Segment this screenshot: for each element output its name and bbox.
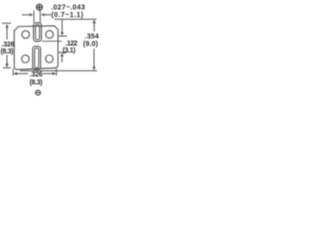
dim .354: bottom extension line: [20, 70, 97, 72]
polarity mark minus (bottom): [36, 90, 41, 95]
polarity mark plus (top): [37, 4, 43, 10]
bottom dim .326: right extension line: [55, 69, 57, 76]
upper terminal slot outer: [34, 23, 42, 42]
bottom dim .326: left arrow: [13, 72, 28, 75]
svg-text:(0.7~1.1): (0.7~1.1): [51, 12, 83, 19]
svg-text:(8.3): (8.3): [1, 48, 14, 55]
extension line from upper slot bottom: [42, 40, 62, 42]
bottom dim .326: right arrow: [43, 72, 56, 75]
mounting dimple bottom-left: [22, 55, 30, 63]
bottom dim .326: left extension line: [12, 69, 14, 76]
mounting dimple top-left: [22, 31, 30, 39]
lead width dim: right arrow: [41, 13, 51, 16]
lead width dim: left extension line: [33, 11, 35, 23]
dim .354: vertical line top with up arrow: [93, 19, 96, 31]
left dim .326: up arrow: [5, 24, 8, 40]
dim .122: down arrow from leader: [61, 19, 64, 36]
svg-text:.122: .122: [66, 40, 78, 47]
upper terminal lead inner: [35, 25, 39, 40]
dim .354: vertical line bottom with down arrow: [92, 49, 95, 71]
mounting dimple top-right: [46, 31, 54, 39]
lead width dim: right extension line: [39, 11, 41, 23]
svg-text:(3.1): (3.1): [63, 48, 76, 55]
left dim .326: top extension line: [2, 22, 11, 24]
left dim .326: bottom extension line: [3, 67, 11, 69]
svg-text:.027~.043: .027~.043: [51, 5, 85, 12]
leader line under label: [55, 18, 97, 20]
lead width dim: left arrow: [22, 13, 33, 16]
svg-text:(8.3): (8.3): [30, 79, 43, 86]
svg-text:.326: .326: [30, 71, 43, 78]
svg-text:(9.0): (9.0): [83, 41, 98, 48]
svg-text:.354: .354: [85, 34, 99, 41]
mounting dimple bottom-right: [46, 55, 54, 63]
left dim .326: down arrow: [5, 55, 8, 68]
dim .122: upper extension line: [59, 35, 67, 37]
dim .122: lower extension line: [59, 51, 67, 53]
svg-text:.326: .326: [2, 41, 15, 48]
lower terminal slot outer: [33, 46, 41, 69]
dim .122: up arrow: [60, 53, 63, 63]
lower terminal lead inner: [35, 48, 39, 68]
capacitor body outline (bottom view): [14, 26, 58, 70]
